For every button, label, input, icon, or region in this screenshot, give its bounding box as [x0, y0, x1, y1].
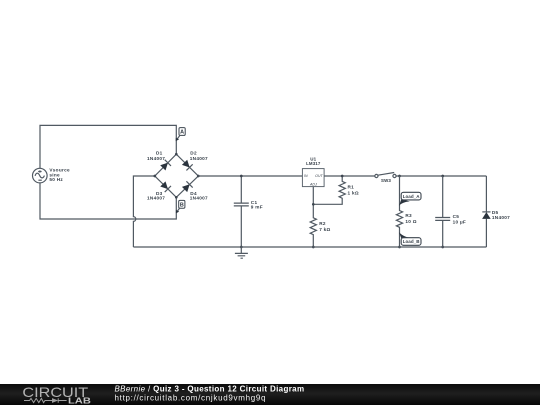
diode D1 — [160, 160, 171, 171]
label C1 9 mF — [251, 200, 263, 209]
node Load_B flag — [399, 232, 421, 245]
footer url text — [115, 394, 267, 403]
svg-text:1N4007: 1N4007 — [147, 195, 165, 200]
label SW3 — [381, 178, 391, 183]
label R3 10 Ohm — [405, 213, 416, 224]
svg-text:R1: R1 — [348, 184, 355, 189]
wire source bottom AC return to node B drop — [40, 183, 176, 219]
junction dots bridge nodes — [153, 153, 199, 199]
svg-text:9 mF: 9 mF — [251, 204, 263, 209]
ground symbol — [235, 247, 248, 258]
svg-text:1N4007: 1N4007 — [190, 156, 208, 161]
op-amp regulator U1 LM317 box — [302, 169, 324, 187]
label R1 1 kOhm — [348, 184, 359, 195]
svg-text:Load_A: Load_A — [403, 194, 421, 199]
svg-text:7 kΩ: 7 kΩ — [319, 227, 330, 232]
svg-text:1N4007: 1N4007 — [147, 156, 165, 161]
svg-text:C5: C5 — [453, 214, 460, 219]
bottom rail wire — [133, 246, 486, 248]
node A flag — [176, 128, 186, 142]
switch SW3 — [375, 173, 396, 178]
svg-text:LM317: LM317 — [306, 161, 321, 166]
diode D3 — [160, 181, 171, 192]
svg-text:ADJ: ADJ — [309, 183, 317, 187]
diode D2 — [181, 159, 192, 170]
label C5 10 uF — [453, 214, 466, 224]
svg-text:OUT: OUT — [315, 174, 323, 178]
svg-text:BBernie / Quiz 3 - Question 12: BBernie / Quiz 3 - Question 12 Circuit D… — [115, 384, 305, 393]
svg-text:D2: D2 — [190, 151, 197, 156]
svg-text:B: B — [180, 202, 184, 208]
CircuitLab logo LAB — [68, 395, 91, 405]
svg-text:IN: IN — [304, 174, 308, 178]
svg-text:LAB: LAB — [68, 395, 91, 405]
node B flag — [176, 200, 185, 213]
footer bar — [0, 384, 540, 405]
label U1 LM317 — [306, 156, 321, 166]
diode D4 — [181, 181, 192, 192]
bridge diamond wires — [155, 154, 199, 197]
capacitor C1 — [234, 175, 249, 249]
svg-text:D1: D1 — [156, 151, 163, 156]
svg-text:1N4007: 1N4007 — [492, 215, 510, 220]
svg-text:1 kΩ: 1 kΩ — [348, 190, 359, 195]
node Load_A flag — [399, 192, 421, 206]
svg-text:10 Ω: 10 Ω — [405, 219, 416, 224]
wire OUT to switch — [324, 175, 375, 177]
CircuitLab logo squiggle resistor and diode — [24, 398, 67, 403]
label D4 1N4007 — [190, 191, 208, 201]
capacitor C5 — [435, 176, 450, 248]
label D3 1N4007 — [147, 191, 165, 201]
svg-text:50 Hz: 50 Hz — [49, 177, 63, 182]
wire bridge left node to bottom rail with hop over AC return — [133, 176, 154, 247]
svg-text:10 µF: 10 µF — [453, 220, 466, 225]
wire bridge right node to regulator IN — [198, 175, 302, 177]
CircuitLab logo CIRCUIT — [22, 385, 88, 400]
footer title text — [115, 384, 305, 393]
svg-text:A: A — [180, 130, 184, 136]
label D2 1N4007 — [190, 151, 208, 161]
wire switch to right side top rail — [396, 175, 486, 178]
label D1 1N4007 — [147, 151, 165, 161]
svg-text:1N4007: 1N4007 — [190, 195, 208, 200]
svg-text:SW3: SW3 — [381, 178, 391, 183]
svg-text:Load_B: Load_B — [403, 239, 421, 244]
wire ADJ down with resistor R2 to bottom rail — [310, 187, 316, 249]
load branch wire with resistor R3 — [396, 176, 402, 248]
diode D5 vertical — [482, 176, 491, 247]
svg-text:http://circuitlab.com/cnjkud9v: http://circuitlab.com/cnjkud9vmhg9q — [115, 394, 267, 403]
resistor R1 — [313, 175, 345, 205]
label D5 1N4007 — [492, 210, 510, 220]
wire top loop from source plus terminal to bridge top — [40, 125, 176, 168]
label R2 7 kOhm — [319, 221, 330, 232]
label Vsource sine 50 Hz — [49, 167, 70, 182]
svg-text:R2: R2 — [319, 221, 326, 226]
voltage source V1 sine — [33, 168, 48, 183]
svg-text:R3: R3 — [405, 213, 412, 218]
